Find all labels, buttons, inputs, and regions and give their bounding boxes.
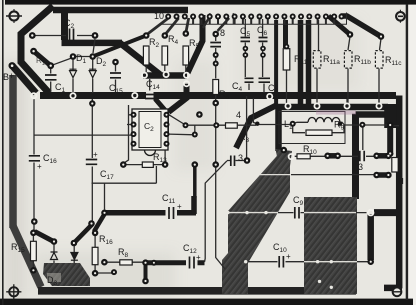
scattered filled pads	[9, 30, 394, 284]
svg-text:10: 10	[154, 11, 164, 21]
resistor R4	[162, 46, 168, 65]
resistor R6	[213, 80, 219, 95]
wire C-shape vertical	[61, 8, 68, 40]
wire junction T	[186, 125, 217, 134]
inductor L1 coil	[308, 118, 340, 123]
IC pin pads	[131, 112, 170, 147]
wire R10 row	[293, 155, 376, 157]
capacitor C12	[186, 259, 198, 268]
white wire across pour: C10 line	[304, 261, 357, 263]
diode D1	[70, 69, 77, 77]
wire C15 vertical	[115, 64, 117, 93]
capacitor C9	[295, 207, 299, 219]
wire link C16 area	[35, 231, 54, 241]
wire C4 bottom to pad row	[247, 96, 258, 158]
wire C2 horizontal	[34, 35, 95, 37]
capacitor C6	[259, 38, 268, 42]
wire link R16 to C11 bar	[94, 214, 105, 232]
wire bar2	[276, 104, 388, 111]
svg-text:B+: B+	[3, 71, 14, 82]
wire pad link right pour	[374, 209, 399, 216]
resistor R13 horizontal	[142, 162, 153, 167]
wire thick diagonal from top pads	[188, 15, 203, 73]
wire D3 leads	[53, 243, 55, 263]
wire vertical to right pour	[352, 114, 359, 199]
wire C6 column	[262, 19, 264, 77]
wire D1 top to link pad	[51, 57, 93, 66]
capacitor C3	[210, 43, 221, 47]
wire R3 row	[216, 124, 292, 127]
registration mark bottom-right	[392, 287, 402, 296]
capacitor C10	[279, 256, 283, 268]
wire C17 branch horizontal	[92, 166, 157, 210]
copper pour left top stub	[276, 149, 293, 166]
wire R10 stub1	[328, 153, 338, 159]
wire bottom long ground bar	[38, 287, 356, 295]
wire thick top-left hook to long bottom bar	[21, 6, 53, 93]
wire C16 net	[33, 99, 35, 231]
diode D2	[89, 69, 96, 77]
capacitor C19 at 3 right	[360, 151, 364, 162]
resistor R3 horizontal	[226, 123, 238, 128]
wire C17 vertical	[91, 99, 93, 222]
svg-text:8: 8	[220, 28, 225, 38]
resistor R16	[92, 247, 98, 264]
capacitor C17	[86, 160, 97, 165]
white wire across pours: C9 line	[228, 212, 278, 214]
wire mid thick vertical under bar3	[169, 84, 187, 112]
scan border top	[5, 0, 416, 5]
registration mark top-left	[6, 9, 22, 23]
wire pad347 up	[347, 99, 379, 103]
copper pour right	[304, 197, 357, 294]
capacitor C7	[259, 78, 271, 82]
pads	[165, 14, 344, 20]
resistor R15	[31, 241, 37, 260]
capacitor C2	[70, 29, 74, 44]
wire stub3	[377, 172, 389, 178]
header box thin outline	[160, 13, 347, 25]
wire bottom right stub	[384, 285, 402, 292]
svg-text:+: +	[286, 252, 291, 261]
wire top-right diagonal to R11b	[329, 16, 351, 35]
scan border bottom	[0, 299, 413, 305]
wire thick vertical to R11	[283, 20, 288, 48]
capacitor C1	[45, 75, 57, 80]
registration mark top-right	[396, 10, 405, 23]
resistor R11b dashed	[344, 51, 352, 69]
svg-text:+: +	[177, 202, 182, 211]
wire vertical pair right	[387, 127, 393, 152]
wire D2 vertical	[93, 39, 95, 93]
resistor R9 horizontal	[306, 130, 332, 135]
wire R11 bottoms	[287, 69, 380, 104]
resistor R8 horizontal	[120, 260, 132, 265]
wire thick along IC right pins	[164, 111, 169, 135]
resistor R10 horizontal	[297, 154, 310, 159]
copper pour D3 blob	[43, 263, 90, 286]
resistor H right small	[392, 158, 398, 173]
component outlines	[31, 46, 399, 265]
scan smear magenta	[316, 110, 356, 114]
wire R16 leads	[94, 234, 96, 272]
junction dots white in pours	[226, 211, 333, 289]
wire D4 leads	[73, 245, 75, 263]
svg-text:4: 4	[236, 110, 241, 120]
capacitor C14	[146, 91, 154, 105]
wire D2 diagonal up to R2 top	[93, 36, 147, 57]
wire D1 vertical	[72, 58, 74, 93]
wire C11 bar vertical up	[191, 196, 197, 214]
wire pad diagonals top row	[146, 18, 168, 35]
copper pour left (slanted)	[222, 149, 290, 294]
top pads row	[165, 14, 344, 20]
wire thick from C14 to IC	[153, 96, 167, 112]
wire bar2 corner down	[384, 104, 396, 128]
wire right vertical trace	[396, 96, 403, 289]
wire thick vertical 1	[274, 20, 278, 104]
wire C12 thick bar	[146, 260, 205, 265]
wire C11 thick bar	[105, 210, 197, 216]
wire diagonal to bar3	[120, 43, 160, 75]
capacitor C5	[241, 38, 251, 42]
wire IC pin2 left	[123, 105, 131, 164]
diode D4 filled	[71, 253, 78, 261]
wire C1 vertical	[50, 67, 52, 92]
wire thick vertical 3	[298, 20, 304, 104]
capacitor C4	[245, 78, 254, 82]
wire top-right diagonal to R11c	[341, 16, 382, 37]
wire stub C12 down	[144, 263, 148, 281]
op-amp IC1 body	[132, 109, 168, 156]
svg-text:3: 3	[238, 153, 243, 163]
wire pad stubs to header line	[193, 19, 334, 24]
capacitor C16	[29, 156, 40, 161]
wire bar3	[143, 72, 187, 79]
L1 R9 box outline	[279, 112, 345, 144]
wire R15 leads	[32, 234, 34, 269]
wire left vertical grainy trace	[9, 75, 17, 228]
svg-text:3: 3	[358, 162, 363, 172]
wire thick vertical 4	[306, 20, 312, 104]
wire C14 vertical	[149, 79, 151, 104]
wire vertical x215	[216, 104, 225, 269]
wire diagonal from bar2 down-left	[236, 105, 277, 148]
wire C10 leads	[248, 261, 368, 263]
scan border left	[2, 0, 4, 305]
wire return bar right	[356, 111, 397, 118]
wire R10 stub2	[377, 153, 389, 159]
wire vertical pad194	[193, 165, 197, 198]
wire long horizontal trace mid-board	[40, 92, 396, 99]
wire R11b top lead	[348, 37, 350, 51]
wire C7 lead	[263, 84, 265, 94]
wire bottom-left diagonal grainy	[13, 226, 41, 287]
wire vertical pair pour right	[367, 214, 374, 260]
wire IC pin wires right	[169, 115, 195, 135]
wire C8/3 cap leads	[227, 160, 245, 162]
wire thick link pads cluster	[34, 51, 51, 65]
wire R8 row	[104, 261, 146, 263]
capacitor C8 small 3	[231, 156, 235, 167]
open pads on copper (white ring)	[31, 72, 381, 216]
wire R2 bottom	[146, 65, 186, 72]
wire C9 leads	[278, 212, 367, 214]
scan border right	[406, 4, 408, 300]
wire L1 R9 parallel	[293, 122, 399, 150]
wire link D4 to C17	[74, 225, 92, 244]
diode D3	[51, 252, 58, 260]
svg-text:+: +	[196, 253, 201, 262]
wire y175 row	[291, 174, 376, 176]
white wire across left pour y175	[260, 174, 290, 176]
wire R11c top lead	[380, 39, 382, 51]
wire B+ diagonal	[13, 66, 37, 93]
wire C3 column	[215, 36, 217, 101]
capacitor C15	[110, 73, 121, 78]
wire R16 bottom link	[96, 272, 114, 274]
resistor R11a dashed	[313, 51, 321, 69]
wire R13 pad up	[164, 150, 166, 163]
svg-text:+: +	[93, 150, 98, 159]
wire thick vertical to left pour	[275, 104, 282, 151]
svg-text:+: +	[37, 162, 42, 171]
wire diagonal 3cap to C12 vertical	[205, 161, 228, 262]
registration mark bottom-left	[6, 284, 21, 299]
wire R11a top	[318, 20, 320, 50]
svg-text:H: H	[398, 177, 404, 186]
wire C-shape second bar	[62, 40, 123, 47]
wire long horizontal to IC pin3	[34, 134, 131, 136]
resistor R11	[283, 49, 290, 70]
capacitor C11	[166, 209, 178, 217]
resistor R11c dashed	[375, 51, 383, 69]
wire R13 row	[123, 164, 165, 166]
resistor R2	[143, 46, 149, 65]
resistor R5	[183, 46, 189, 65]
wire top-left C-shape top bar	[53, 7, 188, 14]
wire C5 column	[245, 19, 249, 90]
